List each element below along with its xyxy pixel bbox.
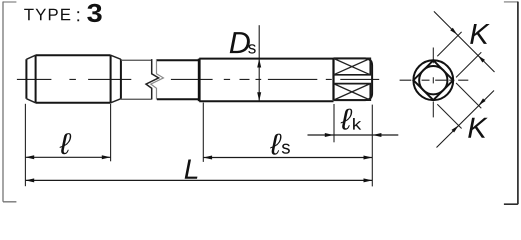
- extension line thread end: [110, 104, 112, 162]
- frame corner top-right: [504, 1, 518, 3]
- thread section outline: [26, 55, 121, 103]
- extension of top-right flat: [456, 83, 481, 108]
- square upper X: [334, 58, 371, 74]
- frame right edge: [504, 2, 518, 205]
- title TYPE : 3: [24, 9, 70, 21]
- break line left: [146, 59, 159, 99]
- dimension Ds line: [258, 25, 260, 101]
- end view centerline horizontal: [400, 79, 469, 81]
- extension of bottom-right flat: [456, 52, 481, 77]
- end view outer circle: [413, 60, 453, 100]
- end view inner circle: [419, 66, 447, 94]
- neck right of break: [157, 60, 198, 99]
- square lower X: [334, 84, 371, 101]
- label lk: [341, 109, 353, 130]
- label l: [60, 133, 72, 154]
- dimension lk line: [308, 134, 399, 136]
- extension line right (square end): [371, 105, 373, 187]
- label L: [185, 160, 198, 179]
- frame corner top-left: [3, 1, 17, 3]
- extension line square start: [333, 104, 335, 142]
- label Ds: [230, 32, 250, 53]
- end view square (diamond): [413, 60, 453, 100]
- extension of top-left flat: [437, 32, 461, 56]
- label ls: [270, 134, 281, 155]
- dimension K bottom line: [437, 91, 495, 148]
- label K top: [470, 24, 490, 44]
- square upper flat box: [334, 58, 371, 74]
- thread chamfer edges: [26, 55, 121, 103]
- square section outline: [334, 58, 373, 100]
- extension line shank start: [202, 103, 204, 162]
- dimension L line: [25, 179, 372, 181]
- dimension l line: [25, 156, 110, 158]
- frame left edge: [3, 2, 16, 202]
- shank outline: [199, 59, 333, 102]
- break line right: [151, 59, 164, 99]
- label K bottom: [468, 118, 488, 138]
- extension of bottom-left flat: [437, 104, 461, 128]
- extension line left (thread front): [24, 104, 26, 186]
- centerline side view: [17, 78, 379, 80]
- square lower flat box: [334, 84, 371, 101]
- shank step edge: [198, 59, 201, 102]
- square section left edge: [332, 58, 334, 100]
- neck left of break: [121, 60, 152, 99]
- dimension ls line: [203, 157, 372, 159]
- end view centerline vertical: [432, 48, 434, 118]
- dimension K top line: [434, 11, 495, 72]
